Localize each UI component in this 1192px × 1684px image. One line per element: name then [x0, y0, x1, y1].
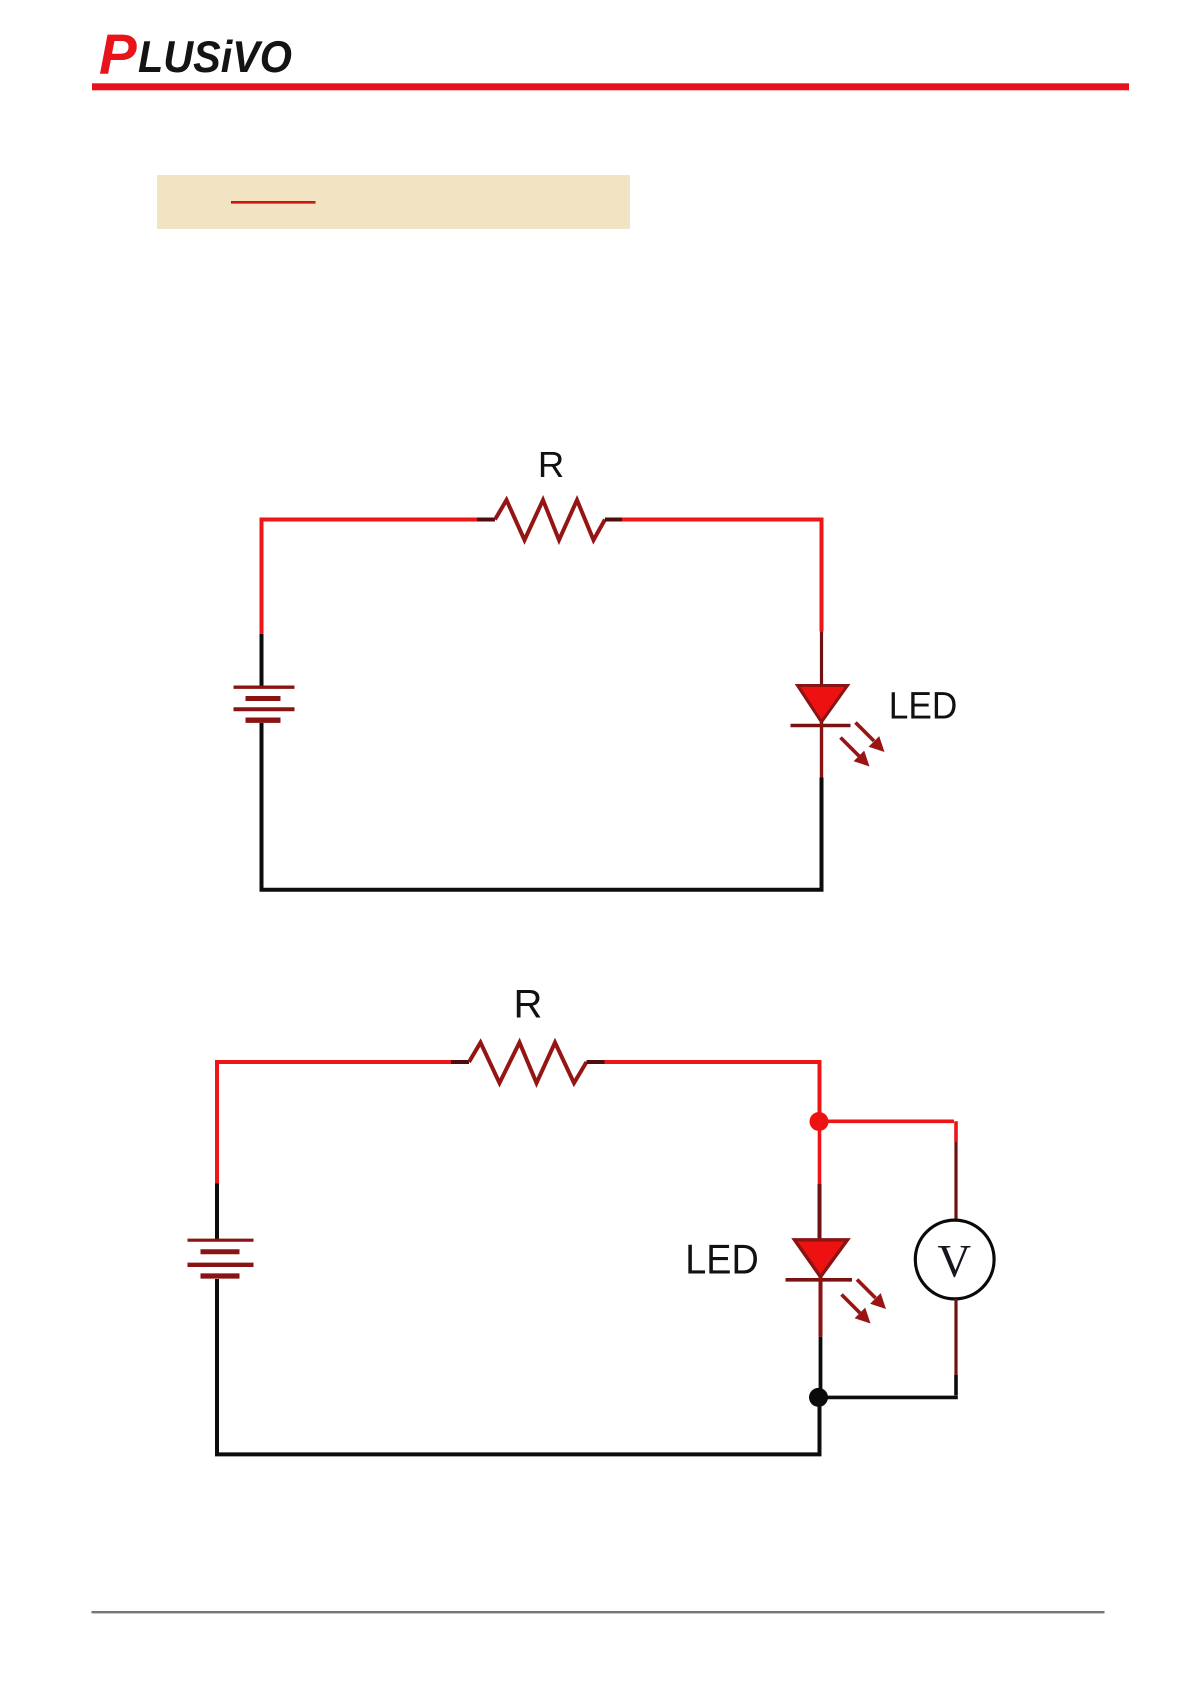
voltmeter V1 circle — [915, 1220, 994, 1299]
wire: C2 black battery top lead — [215, 1184, 219, 1241]
LED D2 light arrow 1 — [857, 1280, 886, 1310]
LED D2 triangle — [795, 1240, 848, 1277]
LED D2 cathode bar — [786, 1278, 853, 1282]
LED D1 triangle — [798, 686, 848, 723]
svg-text:P: P — [99, 23, 137, 86]
wire: C1 dark segment above LED — [820, 631, 823, 687]
svg-text:LED: LED — [889, 685, 958, 727]
header red rule — [92, 83, 1129, 90]
wire: C1 black battery top lead — [260, 634, 264, 687]
wire: C2 black below voltmeter to junction — [820, 1375, 958, 1397]
node: red junction (LED anode tap) — [810, 1112, 829, 1131]
svg-text:R: R — [514, 982, 543, 1026]
wire: C1 top-right red (resistor to LED anode) — [622, 518, 822, 632]
wire: C2 resistor left lead (dark) — [451, 1060, 469, 1064]
wire: C2 resistor right lead (dark) — [587, 1060, 605, 1064]
wire: C2 top-left red (battery + to resistor) — [215, 1062, 451, 1184]
battery BT1 plate short — [246, 696, 281, 701]
battery BT2 plate long bottom — [188, 1263, 254, 1267]
wire: C2 dark segment above voltmeter — [954, 1142, 957, 1220]
resistor R (circuit 1) — [495, 500, 605, 540]
LED D1 cathode bar — [791, 724, 851, 727]
wire: C2 dark segment below voltmeter — [954, 1299, 957, 1375]
wire: C2 black LED cathode down — [819, 1337, 823, 1398]
footer separator line — [92, 1611, 1105, 1613]
resistor R (circuit 2) — [469, 1043, 587, 1084]
wire: C2 red branch to voltmeter (horizontal + down) — [820, 1121, 957, 1142]
wire: C2 red junction to LED (red then dark) — [818, 1121, 822, 1184]
battery BT2 plate long top — [188, 1239, 254, 1242]
battery BT1 plate short bottom — [246, 718, 281, 723]
wire: C2 black bottom + left to battery — [215, 1279, 822, 1456]
LED D2 light arrow 2 — [842, 1295, 871, 1324]
svg-text:R: R — [538, 444, 564, 485]
svg-text:V: V — [938, 1236, 972, 1287]
node: black junction (LED cathode tap) — [809, 1388, 828, 1407]
LED D1 light arrow 2 — [841, 738, 870, 767]
battery BT1 plate long bottom — [234, 707, 295, 711]
wire: C1 resistor left lead (dark) — [477, 518, 495, 522]
wire: C1 dark segment below LED cathode — [820, 722, 823, 778]
wire: C1 black right + bottom + left to battery — [260, 723, 824, 892]
Plusivo logo — [99, 23, 292, 86]
LED D1 light arrow 1 — [856, 723, 885, 753]
red link underline — [231, 201, 316, 204]
svg-text:LED: LED — [685, 1236, 759, 1283]
highlight box — [157, 175, 630, 229]
battery BT2 plate short bottom — [201, 1273, 240, 1278]
wire: C2 top-right red (resistor to junction) — [605, 1060, 820, 1121]
battery BT2 plate short — [201, 1249, 240, 1254]
battery BT1 plate long top — [234, 686, 295, 689]
wire: C1 top-left red (battery + to resistor) — [260, 520, 478, 634]
wire: C2 dark segment below LED — [819, 1277, 823, 1337]
svg-text:LUSiVO: LUSiVO — [138, 33, 292, 82]
wire: C1 resistor right lead (dark) — [605, 518, 622, 522]
